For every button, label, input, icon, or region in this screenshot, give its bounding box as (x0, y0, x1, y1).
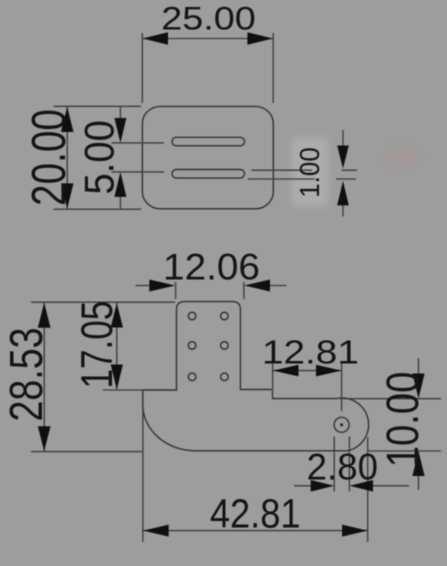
dim 12.81 ext line right (341, 361, 343, 411)
arrow 17.05 up (111, 303, 123, 328)
arrow 42.81 right (points right) (342, 525, 368, 537)
dim 12.81 dimension line (273, 370, 342, 372)
arrow 12.81 left (points left) (273, 365, 299, 377)
arrow 1.00 up (lower) (337, 181, 349, 206)
dim 1.00 lower tail (342, 205, 344, 216)
svg-text:25.00: 25.00 (161, 1, 256, 37)
svg-text:17.05: 17.05 (73, 301, 122, 389)
arm hole r3c2 (221, 373, 229, 381)
dim 5.00 ext line lower (112, 171, 165, 173)
dim 17.05 dimension line (116, 303, 118, 389)
slot 2 (172, 170, 245, 179)
shared ext line at arm top (31, 301, 175, 303)
dim 17.05 ext line bottom (shoulder) (103, 389, 143, 391)
arm hole r2c2 (221, 342, 229, 350)
arm hole r3c1 (188, 373, 196, 381)
pivot hole (334, 417, 349, 432)
svg-text:28.53: 28.53 (1, 327, 53, 421)
svg-text:12.81: 12.81 (262, 333, 359, 371)
dim 12.81 ext line left (272, 361, 274, 389)
dim 25.00 dimension line (143, 38, 273, 40)
dim 20.00 ext line bottom (54, 208, 141, 210)
arrow 12.81 right (points right) (316, 365, 342, 377)
dim 5.00 dim line lower tail (119, 197, 121, 210)
dim 28.53 ext line bottom (31, 451, 142, 453)
svg-text:10.00: 10.00 (377, 372, 428, 468)
arm hole r1c1 (188, 312, 196, 320)
svg-text:2.80: 2.80 (307, 446, 378, 487)
dim 10.00 lower tail (418, 476, 420, 491)
slot 1 (172, 137, 245, 146)
dim 20.00 ext line top (54, 105, 141, 107)
arrow 12.06 right (points left) (244, 280, 270, 292)
arrow 20.00 down (61, 183, 74, 208)
arrow 25.00 right (247, 32, 273, 45)
dim 28.53 dimension line (43, 303, 45, 451)
svg-text:20.00: 20.00 (23, 109, 76, 206)
arrow 10.00 up (lower) (412, 451, 424, 476)
dim 12.06 dim line right tail (270, 285, 287, 287)
dim 2.80 dim line right tail (373, 485, 409, 487)
dim 12.06 dim line left tail (136, 285, 151, 287)
dim 25.00 ext line left (141, 33, 143, 103)
svg-text:12.06: 12.06 (163, 247, 260, 288)
svg-text:5.00: 5.00 (77, 120, 123, 194)
dim 2.80 ext line right (348, 437, 350, 492)
dim 10.00 ext line top (340, 398, 441, 400)
arrow 1.00 down (upper) (337, 146, 349, 169)
faint pink smudge (383, 147, 419, 167)
arrow 17.05 down (111, 365, 123, 390)
svg-text:42.81: 42.81 (210, 491, 301, 536)
arrow 10.00 down (upper) (412, 374, 424, 399)
arrow 28.53 up (38, 303, 51, 328)
arrow 12.06 left (points right) (149, 280, 175, 292)
dim 10.00 ext line bottom (368, 450, 441, 452)
arrow 2.80 right (points left) (350, 480, 374, 492)
svg-text:1.00: 1.00 (294, 147, 325, 198)
arrow 5.00 up (lower) (114, 172, 126, 197)
arm hole r1c2 (221, 312, 229, 320)
arrow 20.00 up (61, 107, 74, 132)
plate outline (top view, 25x20 plate) (142, 106, 273, 208)
slot edge ext line lower (248, 178, 356, 180)
arrow 28.53 down (38, 426, 51, 451)
dim 2.80 dim line left tail (294, 485, 312, 487)
dim 25.00 ext line right (272, 33, 274, 103)
dim 5.00 dim line upper tail (119, 106, 121, 119)
light patch behind 1.00 label (292, 138, 328, 206)
dim 10.00 upper tail (418, 358, 420, 374)
arrow 25.00 left (143, 32, 169, 45)
bracket outline (bottom view) (143, 302, 369, 451)
pivot hole center dot (340, 423, 343, 426)
arrow 42.81 left (points left) (143, 525, 169, 537)
dim 12.06 ext line left (175, 282, 177, 299)
slot edge ext line upper (252, 169, 358, 171)
arrow 2.80 left (points right) (311, 480, 335, 492)
arm hole r2c1 (188, 342, 196, 350)
dim 12.06 ext line right (243, 282, 245, 299)
dim 20.00 dimension line (66, 107, 68, 209)
arrow 5.00 down (upper) (114, 118, 126, 143)
dim 1.00 upper tail (342, 130, 344, 146)
dim 2.80 ext line left (333, 437, 335, 492)
dim 5.00 ext line upper (112, 142, 165, 144)
dim 42.81 ext line left (142, 404, 144, 542)
dim 42.81 dimension line (144, 530, 368, 532)
dim 42.81 ext line right (367, 437, 369, 542)
